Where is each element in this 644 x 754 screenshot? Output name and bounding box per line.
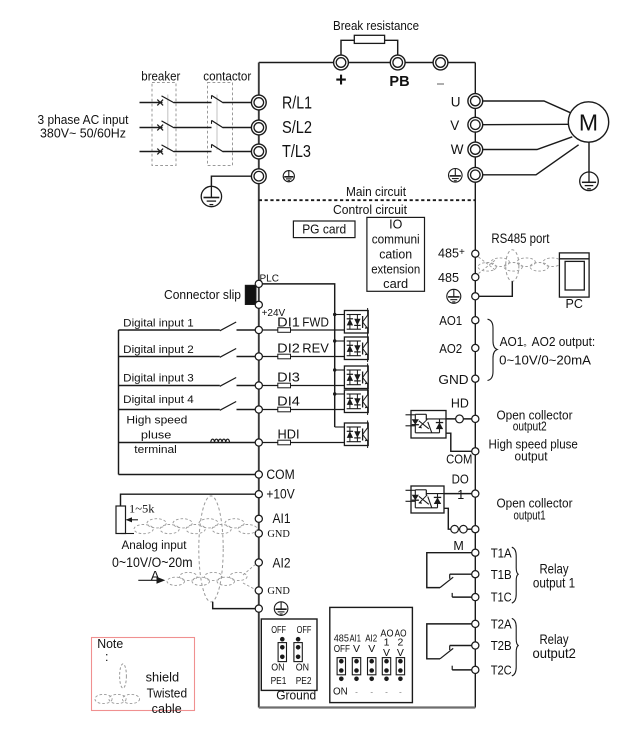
- svg-text:DI4: DI4: [277, 395, 300, 409]
- wire DO1 opto emitter to M: [444, 508, 472, 529]
- svg-text:RS485 port: RS485 port: [491, 231, 549, 246]
- contactor linkage bar: [216, 95, 218, 151]
- wire T-phase input: [140, 151, 163, 153]
- wire PLC to optocoupler rail: [262, 284, 335, 427]
- wire switch feed DI3: [119, 385, 220, 387]
- terminal DI3: [255, 382, 262, 389]
- terminal T/L3: [251, 144, 266, 159]
- svg-text:485: 485: [438, 271, 459, 285]
- wire switch to terminal DI2: [237, 356, 256, 358]
- contactor blade R-phase: [212, 95, 224, 103]
- svg-text:HDI: HDI: [278, 428, 300, 442]
- terminal + (DC bus plus): [334, 55, 349, 70]
- breaker blade R-phase: [162, 96, 175, 103]
- svg-text:PC: PC: [566, 297, 583, 311]
- terminal 485+: [472, 250, 479, 257]
- svg-text:Digital input 1: Digital input 1: [123, 317, 194, 329]
- terminal T1A: [472, 549, 479, 556]
- svg-text:Connector slip: Connector slip: [164, 288, 241, 302]
- svg-text:PB: PB: [389, 74, 409, 90]
- svg-text:Digital input 3: Digital input 3: [123, 372, 194, 384]
- wire rail branch to optocoupler HDI: [335, 426, 345, 428]
- terminal 485: [472, 274, 479, 281]
- svg-text:U: U: [451, 94, 461, 109]
- terminal HDI: [255, 439, 262, 446]
- svg-text:ON: ON: [333, 685, 348, 697]
- terminal COM right: [472, 448, 479, 455]
- wire switch to terminal DI1: [237, 329, 256, 331]
- wire rail branch to optocoupler DI2: [335, 340, 345, 342]
- svg-text:COM: COM: [446, 452, 472, 466]
- terminal GND right: [472, 375, 479, 382]
- svg-text:T1A: T1A: [491, 545, 512, 560]
- terminal DI4: [255, 406, 262, 413]
- terminal AO1: [472, 317, 479, 324]
- wire potentiometer bottom: [121, 533, 135, 535]
- wire T1C: [452, 593, 472, 597]
- PE symbol RS485: [447, 289, 461, 303]
- junction rail DI3: [333, 368, 336, 371]
- breaker blade T-phase: [162, 145, 175, 152]
- jumper column x=371.7: [368, 658, 376, 682]
- svg-text:T2B: T2B: [491, 638, 512, 653]
- optocoupler DI2: [344, 335, 368, 363]
- optocoupler DI4: [344, 388, 368, 416]
- note box: [92, 638, 195, 711]
- terminal AI1: [255, 515, 262, 522]
- svg-text:PE1: PE1: [271, 675, 287, 687]
- wire + terminal to resistor: [341, 40, 354, 55]
- svg-text:DO: DO: [452, 473, 469, 487]
- terminal V: [468, 117, 483, 132]
- wire breaker to contactor R-phase: [174, 102, 212, 104]
- wire switch to terminal DI3: [237, 385, 256, 387]
- svg-text:extension: extension: [371, 263, 420, 277]
- jumper circles CO: [451, 525, 467, 533]
- IO communication extension card box: [367, 217, 425, 291]
- wire input PE to earth: [211, 176, 251, 186]
- terminal GND analog 2: [255, 587, 262, 594]
- svg-text:GND: GND: [267, 586, 290, 597]
- twisted pair AI2/GND: [167, 572, 247, 585]
- jumper block PE2: [294, 643, 302, 662]
- jumper circle HD: [456, 415, 464, 423]
- svg-text:Note: Note: [97, 637, 123, 651]
- svg-text:DI3: DI3: [277, 371, 300, 385]
- svg-text:High speed: High speed: [126, 415, 187, 427]
- wire motor to earth: [588, 142, 590, 172]
- svg-text:+: +: [335, 70, 346, 91]
- PC monitor icon: [559, 253, 589, 297]
- label Relay output 2: [532, 631, 576, 661]
- svg-text:M: M: [453, 539, 463, 553]
- svg-text:Break resistance: Break resistance: [333, 18, 419, 33]
- svg-text:breaker: breaker: [141, 70, 180, 84]
- svg-text:FWD: FWD: [302, 316, 329, 330]
- resistor input HDI: [262, 440, 344, 445]
- svg-text:ON: ON: [296, 661, 309, 673]
- wire V to motor: [483, 123, 569, 125]
- optocoupler DI3: [344, 364, 368, 392]
- wire contactor to terminal S-phase: [223, 127, 252, 129]
- twisted pair fork to AI2: [243, 565, 255, 590]
- twisted cable legend: [95, 694, 140, 703]
- twisted pair AI1/GND: [134, 519, 257, 534]
- twisted pair RS485: [478, 258, 561, 271]
- wire switch feed DI2: [119, 356, 220, 358]
- PG card box: [293, 221, 355, 238]
- svg-text:S/L2: S/L2: [282, 117, 312, 137]
- wire contactor to terminal T-phase: [223, 151, 252, 153]
- breaker linkage bar: [167, 95, 169, 151]
- terminal PE RS485: [472, 293, 479, 300]
- svg-text:0~10V/0~20mA: 0~10V/0~20mA: [499, 352, 591, 367]
- svg-text:contactor: contactor: [203, 70, 251, 84]
- svg-text:V: V: [450, 118, 459, 133]
- svg-text:PE2: PE2: [296, 675, 312, 687]
- earth ground motor side: [580, 172, 599, 191]
- svg-text:AI2: AI2: [273, 556, 291, 571]
- wire rail branch to optocoupler DI4: [335, 393, 345, 395]
- wire HDI feed: [119, 442, 210, 444]
- wire breaker to contactor S-phase: [174, 127, 212, 129]
- ground jumper box PE1 PE2: [261, 619, 317, 690]
- svg-text::: :: [105, 650, 108, 664]
- svg-text:PG card: PG card: [302, 223, 346, 237]
- svg-text:T2A: T2A: [491, 617, 512, 632]
- terminal T1C: [472, 594, 479, 601]
- contactor blade T-phase: [212, 144, 224, 152]
- wire common bus to COM terminal: [119, 474, 256, 476]
- terminal DI2: [255, 353, 262, 360]
- optocoupler HD output: [406, 411, 447, 439]
- optocoupler HDI: [344, 421, 368, 449]
- breaker blade S-phase: [162, 121, 175, 128]
- svg-text:Digital input 4: Digital input 4: [123, 394, 194, 406]
- wire rail branch to optocoupler DI3: [335, 369, 345, 371]
- tick marks jumper box: [356, 692, 402, 694]
- svg-text:cable: cable: [152, 702, 182, 716]
- jumper dot top PE1: [280, 637, 285, 642]
- wire S-phase input: [140, 127, 163, 129]
- cable shield ellipse analog: [199, 496, 223, 602]
- wire digital input common bus (left vertical): [118, 330, 120, 475]
- breaker contact R-phase (x mark): [157, 100, 163, 106]
- wire switch to terminal DI4: [237, 409, 256, 411]
- wire rail branch to optocoupler DI1: [335, 314, 345, 316]
- terminal M common: [472, 526, 479, 533]
- svg-text:M: M: [579, 110, 598, 136]
- terminal W: [468, 142, 483, 157]
- svg-text:shield: shield: [146, 671, 180, 685]
- terminal PLC: [255, 280, 262, 287]
- jumper column x=386.5: [382, 658, 390, 682]
- PE symbol at input terminal: [283, 171, 294, 182]
- junction rail DI2: [333, 339, 336, 342]
- wire relay common T1A: [427, 553, 472, 588]
- brace relay group T2A: [512, 618, 518, 675]
- svg-text:OFF: OFF: [334, 643, 350, 655]
- terminal GND analog 1: [255, 530, 262, 537]
- terminal U: [468, 94, 483, 109]
- svg-text:Main circuit: Main circuit: [346, 185, 406, 199]
- wire relay common T2A: [427, 624, 472, 659]
- svg-text:GND: GND: [438, 373, 468, 387]
- potentiometer wiper arrow: [126, 517, 138, 522]
- jumper dot top PE2: [296, 637, 301, 642]
- svg-text:T1C: T1C: [491, 590, 512, 605]
- breaker dashed outline: [152, 83, 176, 166]
- brace AO group: [488, 319, 498, 380]
- dashed separator Main circuit / Control circuit: [259, 199, 476, 201]
- svg-text:V: V: [368, 643, 375, 655]
- switch blade DI1: [220, 322, 236, 331]
- svg-text:HD: HD: [451, 396, 469, 410]
- wire U to motor: [483, 101, 571, 113]
- switch blade DI4: [220, 402, 236, 411]
- svg-text:AI1: AI1: [273, 511, 291, 526]
- svg-text:communi: communi: [372, 233, 420, 247]
- svg-text:output: output: [515, 449, 548, 464]
- earth ground input side: [201, 186, 221, 206]
- svg-text:V: V: [353, 643, 360, 655]
- svg-text:380V~ 50/60Hz: 380V~ 50/60Hz: [40, 126, 126, 140]
- optocoupler DO1 output: [406, 486, 445, 513]
- wire DO1 line: [444, 493, 472, 495]
- wire T2C: [452, 666, 472, 670]
- breaker contact S-phase (x mark): [157, 125, 163, 131]
- wire T2B: [450, 646, 472, 651]
- junction rail DI1: [333, 313, 336, 316]
- svg-text:output 1: output 1: [533, 575, 575, 591]
- svg-text:cation: cation: [379, 248, 412, 262]
- breaker contact T-phase (x mark): [157, 149, 163, 155]
- wire resistor to PB terminal: [385, 40, 398, 55]
- terminal COM: [255, 471, 262, 478]
- svg-text:Twisted: Twisted: [147, 687, 188, 701]
- terminal DO1: [472, 490, 479, 497]
- terminal PE input: [251, 169, 266, 184]
- potentiometer 1~5k body: [116, 506, 126, 534]
- terminal S/L2: [251, 120, 266, 135]
- wire switch feed DI4: [119, 409, 220, 411]
- svg-text:output2: output2: [532, 645, 576, 661]
- wire contactor to terminal R-phase: [223, 102, 252, 104]
- motor M: [568, 102, 608, 142]
- svg-text:3 phase AC input: 3 phase AC input: [38, 113, 129, 127]
- contactor dashed outline: [208, 83, 233, 166]
- wire W to motor: [483, 137, 573, 150]
- resistor braking: [354, 35, 384, 43]
- svg-text:output1: output1: [514, 507, 546, 522]
- terminal minus (DC bus): [433, 55, 448, 70]
- svg-text:+: +: [459, 247, 465, 258]
- jumper column x=356.5: [352, 658, 360, 682]
- terminal AI2: [255, 559, 262, 566]
- terminal T2C: [472, 666, 479, 673]
- svg-text:Control circuit: Control circuit: [333, 203, 407, 217]
- brace relay group T1A: [512, 547, 518, 603]
- svg-text:DI2: DI2: [277, 342, 300, 356]
- terminal AO2: [472, 344, 479, 351]
- PE symbol at output terminal: [449, 169, 463, 183]
- inductor coil HDI: [211, 439, 230, 442]
- terminal T2B: [472, 642, 479, 649]
- terminal T2A: [472, 620, 479, 627]
- wire shield drain to PE: [213, 602, 256, 609]
- arrow current input: [138, 577, 165, 584]
- relay blade T1A group: [440, 577, 453, 587]
- svg-text:AO1。AO2 output:: AO1。AO2 output:: [500, 334, 596, 349]
- resistor input DI3: [262, 383, 344, 388]
- svg-text:Analog input: Analog input: [122, 540, 188, 552]
- label Open collector output1: [497, 496, 574, 523]
- resistor input DI2: [262, 354, 344, 359]
- svg-text:T/L3: T/L3: [282, 141, 311, 161]
- resistor input DI4: [262, 407, 344, 412]
- terminal HD: [472, 415, 479, 422]
- wire PE to motor frame: [483, 145, 579, 175]
- terminal DI1: [255, 326, 262, 333]
- svg-text:REV: REV: [302, 342, 329, 356]
- optocoupler DI1: [344, 308, 368, 336]
- labels jumper box headers: [334, 628, 407, 659]
- svg-text:terminal: terminal: [134, 444, 177, 456]
- contactor blade S-phase: [212, 120, 224, 128]
- label Relay output 1: [533, 561, 575, 591]
- terminal T1B: [472, 571, 479, 578]
- svg-text:+10V: +10V: [266, 486, 294, 501]
- svg-text:IO: IO: [389, 218, 402, 232]
- wire RS485 shield drain: [479, 281, 512, 296]
- svg-text:output2: output2: [513, 418, 547, 433]
- svg-text:1: 1: [457, 488, 464, 502]
- svg-text:R/L1: R/L1: [282, 92, 312, 112]
- svg-text:COM: COM: [266, 467, 294, 482]
- svg-text:pluse: pluse: [141, 430, 172, 442]
- connector slip block: [245, 285, 256, 304]
- jumper column x=341.3: [337, 658, 345, 682]
- terminal PB: [390, 55, 405, 70]
- terminal PE output: [468, 167, 483, 182]
- cable shield ellipse RS485: [506, 250, 519, 282]
- wire T1B: [450, 574, 472, 579]
- svg-text:485: 485: [438, 247, 459, 261]
- svg-text:OFF: OFF: [271, 624, 286, 636]
- svg-text:OFF: OFF: [297, 624, 312, 636]
- wire switch feed DI1: [119, 329, 220, 331]
- junction rail DI4: [333, 392, 336, 395]
- terminal PE analog shield: [255, 605, 262, 612]
- svg-text:GND: GND: [267, 529, 290, 540]
- svg-text:W: W: [451, 142, 464, 157]
- svg-text:Digital input 2: Digital input 2: [123, 344, 194, 356]
- label IO card: [371, 218, 420, 292]
- terminal +10V: [255, 491, 262, 498]
- terminal R/L1: [251, 95, 266, 110]
- svg-text:card: card: [383, 277, 408, 291]
- svg-text:AO1: AO1: [439, 314, 462, 328]
- wire HD line: [446, 418, 472, 420]
- label Open collector output2 High speed pluse output: [489, 407, 578, 463]
- svg-text:T1B: T1B: [491, 567, 512, 582]
- inverter main enclosure box: [259, 63, 476, 708]
- wire HD opto emitter to COM: [446, 433, 472, 451]
- switch blade DI2: [220, 349, 236, 358]
- svg-text:T2C: T2C: [491, 663, 512, 678]
- shield ellipse legend: [120, 664, 127, 688]
- svg-text:ON: ON: [271, 661, 284, 673]
- wire +10V to potentiometer: [121, 494, 256, 506]
- relay blade T2A group: [440, 648, 453, 658]
- label minus: [437, 83, 444, 85]
- wire breaker to contactor T-phase: [174, 151, 212, 153]
- PE symbol analog: [274, 602, 288, 616]
- analog jumper box 485 AI1 AI2 AO1 AO2: [330, 607, 413, 702]
- svg-text:Ground: Ground: [276, 689, 316, 703]
- twisted fork 485+: [479, 257, 497, 274]
- label High speed pluse terminal: [126, 415, 187, 457]
- jumper column x=400.4: [396, 658, 404, 682]
- resistor input DI1: [262, 328, 344, 333]
- terminal +24V: [255, 301, 262, 308]
- switch blade DI3: [220, 378, 236, 387]
- svg-text:AO2: AO2: [439, 342, 462, 356]
- jumper block PE1: [278, 643, 286, 662]
- wire coil to HDI terminal: [210, 442, 256, 444]
- wire R-phase input: [140, 102, 163, 104]
- svg-text:1~5k: 1~5k: [129, 504, 155, 516]
